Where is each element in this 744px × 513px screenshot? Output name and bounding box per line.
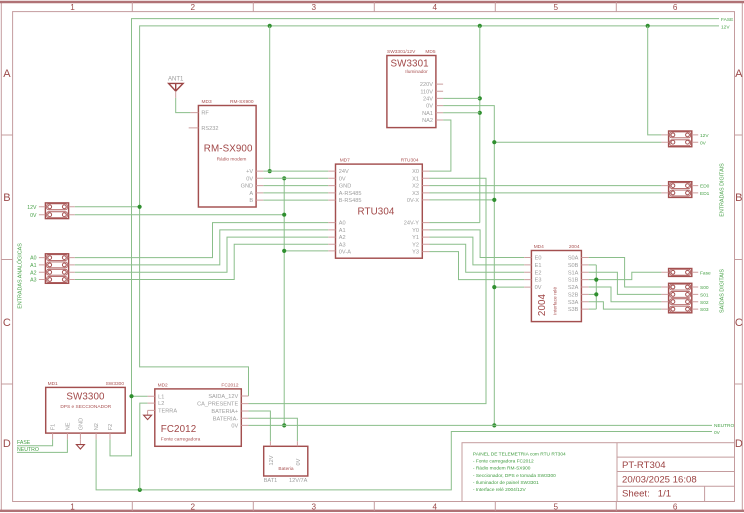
svg-text:0V: 0V — [30, 213, 37, 219]
svg-text:PAINEL DE TELEMETRIA com RTU R: PAINEL DE TELEMETRIA com RTU RT304 — [473, 451, 566, 457]
connector X5 right Fase terminal — [669, 269, 692, 277]
svg-text:0V: 0V — [231, 424, 238, 430]
node 0V bus to bottom 0V line junction — [492, 423, 496, 427]
net 12V rail (top/left, from FC2012 SAIDA_12V) — [140, 26, 719, 396]
pin stubs left 12V/0V connector — [39, 207, 75, 215]
svg-text:RTU304: RTU304 — [358, 207, 395, 218]
svg-text:S0B: S0B — [568, 263, 579, 269]
pin stubs 2004 right — [581, 258, 588, 310]
svg-text:A2: A2 — [339, 235, 346, 241]
svg-text:SAIDA_12V: SAIDA_12V — [208, 394, 238, 400]
svg-text:0V: 0V — [296, 458, 302, 465]
svg-text:MD1: MD1 — [48, 381, 58, 387]
svg-text:S0A: S0A — [568, 256, 579, 262]
svg-text:Y3: Y3 — [412, 250, 419, 256]
svg-text:CA_PRESENTE: CA_PRESENTE — [197, 402, 238, 408]
svg-text:2004: 2004 — [569, 244, 580, 250]
svg-text:D: D — [735, 438, 743, 450]
svg-text:Bateria: Bateria — [278, 466, 294, 472]
net S1A to S01 — [589, 272, 662, 294]
svg-text:BAT1: BAT1 — [264, 478, 278, 484]
svg-text:X0: X0 — [412, 169, 419, 175]
svg-text:E3: E3 — [535, 278, 542, 284]
svg-text:SW3301/12V: SW3301/12V — [387, 49, 416, 55]
node 0V right connector junction — [492, 140, 496, 144]
svg-text:- Seccionador, DPS e tomada SW: - Seccionador, DPS e tomada SW3300 — [473, 473, 556, 479]
svg-text:A0: A0 — [339, 221, 346, 227]
wire SW3300 F1 to FASE label — [17, 439, 53, 445]
svg-text:A3: A3 — [339, 242, 346, 248]
pin stubs 2004 left — [524, 258, 531, 288]
pin stubs left A0-A3 connector — [39, 258, 75, 280]
svg-text:RTU304: RTU304 — [401, 158, 419, 164]
svg-text:24V: 24V — [423, 97, 433, 103]
pin stubs right S connector — [661, 287, 698, 309]
net 2004 B-common vertical — [595, 265, 597, 309]
svg-text:X3: X3 — [412, 191, 419, 197]
net A1 — [75, 230, 328, 265]
ground symbol at FC2012 TERRA — [144, 410, 152, 419]
connector X3 right 12V/0V terminal — [669, 131, 692, 147]
svg-text:4: 4 — [433, 503, 438, 512]
wire L2 drop to NEUTRO — [140, 403, 148, 490]
node left 0V junction — [282, 213, 286, 217]
net 0V vertical rail x=284 (RM 0V, left 0V conn, RTU 0V-A, bottom 0V line) — [283, 178, 285, 425]
illuminator U-MD5 SW3301 — [387, 49, 436, 128]
net RM-SX900 to RTU304 +V/24V line — [263, 170, 328, 172]
node S1B junction — [594, 278, 598, 282]
wire left 12V connector to 12V rail — [75, 206, 140, 208]
net bottom 0V line from FC2012 0V to NEUTRO label — [249, 424, 713, 426]
svg-text:S01: S01 — [700, 293, 709, 299]
net RM-SX900 A to RTU A-RS485 — [263, 192, 328, 194]
svg-text:12V: 12V — [269, 455, 275, 465]
svg-text:B: B — [735, 192, 742, 204]
svg-text:MD7: MD7 — [340, 158, 350, 164]
svg-text:ANT1: ANT1 — [168, 77, 184, 83]
svg-text:- Rádio modem RM-SX900: - Rádio modem RM-SX900 — [473, 466, 531, 472]
relay interface U-MD4 2004 — [531, 244, 581, 321]
pin stubs RTU304 left — [328, 171, 335, 251]
node SW3301 NA1 junction — [478, 111, 482, 115]
pin stubs right Fase connector — [661, 271, 698, 273]
svg-text:0V: 0V — [426, 104, 433, 110]
svg-text:- Interface relé 2004/12V: - Interface relé 2004/12V — [473, 487, 527, 493]
net RTU Y0 to 2004 E0 — [430, 230, 525, 258]
svg-text:A1: A1 — [339, 228, 346, 234]
wire SW3301 24V to 12V drop — [443, 97, 480, 99]
svg-text:C: C — [735, 317, 743, 329]
svg-text:3: 3 — [312, 503, 317, 512]
connector X1 left 12V/0V terminal — [45, 203, 68, 219]
radio modem U-MD3 RM-SX900 — [198, 99, 256, 207]
svg-text:- Iluminador de painel SW3301: - Iluminador de painel SW3301 — [473, 480, 539, 486]
svg-text:Y0: Y0 — [412, 228, 419, 234]
pin stubs RM-SX900 — [189, 113, 264, 201]
svg-text:NA2: NA2 — [422, 118, 433, 124]
pin stubs right 12V/0V connector — [661, 135, 698, 142]
wire 12V drop to RM-SX900 +V — [269, 26, 271, 171]
frame column ticks bottom — [132, 502, 616, 511]
frame column labels top — [70, 3, 678, 12]
svg-text:GND: GND — [339, 184, 351, 190]
svg-text:S1A: S1A — [568, 270, 579, 276]
svg-text:A: A — [249, 191, 253, 197]
svg-text:ED0: ED0 — [700, 184, 710, 190]
svg-text:B: B — [3, 192, 10, 204]
svg-text:ENTRADAS ANALÓGICAS: ENTRADAS ANALÓGICAS — [17, 243, 24, 309]
node 2004 0V junction — [492, 285, 496, 289]
svg-text:RF: RF — [201, 111, 209, 117]
node RM 0V junction — [282, 176, 286, 180]
svg-text:2: 2 — [191, 3, 196, 12]
node 12V rail junctions top — [268, 24, 650, 28]
svg-text:+V: +V — [246, 169, 253, 175]
svg-text:0V: 0V — [246, 176, 253, 182]
svg-text:0V: 0V — [339, 176, 346, 182]
battery BAT1 — [264, 446, 308, 484]
wire SW3300 NE to NEUTRO label — [17, 439, 67, 452]
wire RTU 0V-A to 0V rail — [284, 250, 328, 252]
svg-text:GND: GND — [79, 418, 85, 430]
svg-text:MD3: MD3 — [202, 99, 212, 105]
svg-text:Y1: Y1 — [412, 235, 419, 241]
svg-text:A3: A3 — [30, 278, 36, 284]
svg-text:NE: NE — [66, 422, 72, 430]
frame row ticks left — [1, 135, 12, 384]
wire RTU 0V-X to 0V bus — [430, 199, 495, 201]
net NEUTRO: SW3300 N2 to 0V label right — [96, 432, 712, 490]
svg-text:Iluminador: Iluminador — [405, 69, 428, 75]
svg-text:A-RS485: A-RS485 — [339, 191, 362, 197]
svg-text:20/03/2025 16:08: 20/03/2025 16:08 — [622, 474, 697, 485]
svg-text:24V-Y: 24V-Y — [404, 221, 420, 227]
svg-text:5: 5 — [554, 503, 559, 512]
svg-text:Fonte carregadora: Fonte carregadora — [161, 437, 201, 443]
svg-text:MD2: MD2 — [158, 383, 168, 389]
svg-text:5: 5 — [554, 3, 559, 12]
svg-text:PT-RT304: PT-RT304 — [622, 460, 666, 471]
node 0V-X junction — [492, 198, 496, 202]
svg-text:B-RS485: B-RS485 — [339, 198, 362, 204]
svg-text:3: 3 — [312, 3, 317, 12]
svg-text:X1: X1 — [412, 176, 419, 182]
svg-text:S3B: S3B — [568, 307, 579, 313]
net RM-SX900 to RTU304 0V line — [263, 177, 328, 179]
antenna ANT1 — [168, 77, 184, 98]
svg-text:SAÍDAS DIGITAIS: SAÍDAS DIGITAIS — [719, 269, 726, 313]
node SW3301 24V junction — [478, 96, 482, 100]
svg-text:FC2012: FC2012 — [221, 383, 238, 389]
svg-text:E0: E0 — [535, 256, 542, 262]
wire 2004 0V pin to 0V bus — [494, 286, 524, 288]
svg-text:FASE: FASE — [17, 440, 31, 446]
svg-text:L2: L2 — [158, 401, 164, 407]
svg-text:L1: L1 — [158, 395, 164, 401]
svg-text:E2: E2 — [535, 270, 542, 276]
svg-text:ENTRADAS DIGITAIS: ENTRADAS DIGITAIS — [720, 163, 726, 217]
svg-text:BATERIA+: BATERIA+ — [211, 409, 238, 415]
svg-text:2: 2 — [191, 503, 196, 512]
pin stubs FC2012 — [148, 396, 249, 425]
svg-text:0V: 0V — [714, 430, 721, 436]
svg-text:C: C — [3, 317, 11, 329]
wire SW3301 NA1 to 12V drop — [443, 112, 480, 114]
node left 12V junction — [138, 205, 142, 209]
net SW3301 NA2 to RTU X0 — [430, 120, 451, 171]
node 0V rail bottom junction — [282, 423, 286, 427]
svg-text:A0: A0 — [30, 256, 36, 262]
svg-text:6: 6 — [673, 503, 678, 512]
frame row ticks right — [735, 135, 743, 384]
net RTU Y3 to 2004 E3 — [430, 252, 525, 280]
svg-text:MD4: MD4 — [534, 244, 544, 250]
svg-text:6: 6 — [673, 3, 678, 12]
svg-text:NEUTRO: NEUTRO — [17, 447, 39, 453]
svg-text:S1B: S1B — [568, 278, 579, 284]
svg-text:S2B: S2B — [568, 293, 579, 299]
frame row labels right — [735, 68, 743, 450]
net 0V bus: SW3301 0V down to bottom 0V line — [443, 106, 494, 426]
svg-text:RM-SX900: RM-SX900 — [230, 99, 254, 105]
svg-text:D: D — [3, 438, 11, 450]
svg-text:- Fonte carregadora FC2012: - Fonte carregadora FC2012 — [473, 459, 534, 465]
svg-text:Y2: Y2 — [412, 242, 419, 248]
net S2A to S02 — [589, 287, 662, 302]
svg-text:24V: 24V — [339, 169, 349, 175]
connector X2 left A0-A3 terminal — [45, 254, 68, 283]
wire 0V branch to right 0V connector — [494, 141, 661, 143]
connector X6 right S00-S03 terminal — [669, 283, 692, 313]
net S3A to S03 — [589, 302, 662, 309]
net FASE rail (top/left, to SW3300 F2 and FC2012 L1) — [110, 19, 719, 456]
node FASE-L1 junction — [129, 394, 133, 398]
frame row labels left — [3, 68, 11, 450]
net RTU X2 to ED0 — [430, 185, 662, 187]
svg-text:12V: 12V — [721, 24, 730, 30]
svg-text:110V: 110V — [420, 89, 433, 95]
svg-text:12V: 12V — [27, 205, 37, 211]
svg-text:TERRA: TERRA — [158, 409, 177, 415]
title block — [462, 443, 735, 502]
svg-text:12V: 12V — [700, 133, 709, 139]
svg-text:E1: E1 — [535, 263, 542, 269]
svg-text:A: A — [735, 68, 743, 80]
svg-text:1: 1 — [70, 503, 75, 512]
svg-text:A1: A1 — [30, 263, 36, 269]
svg-text:SW3300: SW3300 — [106, 381, 125, 387]
svg-text:12V/7A: 12V/7A — [289, 478, 308, 484]
svg-text:NA1: NA1 — [422, 111, 433, 117]
net RM-SX900 to RTU304 GND line — [263, 185, 328, 187]
charger U-MD2 FC2012 — [155, 383, 242, 447]
net BATERIA+ to battery 12V — [249, 411, 271, 441]
svg-text:Sheet: 1/1: Sheet: 1/1 — [622, 489, 671, 500]
wire S0B to B-common — [589, 264, 597, 266]
wire RTU 24V-Y to 12V drop — [430, 222, 480, 224]
svg-text:N2: N2 — [94, 423, 100, 430]
net A2 — [75, 237, 328, 272]
svg-text:A: A — [3, 68, 11, 80]
ground symbol below SW3300 GND — [76, 439, 84, 449]
net RTU Y2 to 2004 E2 — [430, 244, 525, 272]
svg-text:1: 1 — [70, 3, 75, 12]
net RTU Y1 to 2004 E1 — [430, 237, 525, 265]
svg-text:B: B — [249, 198, 253, 204]
net S0A to S00 — [589, 258, 662, 288]
svg-text:Fase: Fase — [700, 270, 711, 276]
svg-text:S3A: S3A — [568, 300, 579, 306]
svg-text:Interface relé: Interface relé — [553, 287, 559, 315]
svg-text:F1: F1 — [51, 424, 57, 431]
wire antenna to RF — [176, 98, 191, 113]
svg-text:FC2012: FC2012 — [161, 424, 196, 435]
net A0 from connector to RTU — [75, 223, 328, 258]
title block description text — [473, 451, 566, 492]
svg-text:0V: 0V — [700, 140, 707, 146]
wire 12V drop to SW3301 24V / NA1 / RTU 24V-Y — [479, 26, 481, 223]
svg-text:X2: X2 — [412, 184, 419, 190]
RTU U-MD7 RTU304 — [336, 158, 423, 259]
node 0V-A junction — [282, 249, 286, 253]
svg-text:MD5: MD5 — [425, 49, 435, 55]
svg-text:S03: S03 — [700, 307, 709, 313]
svg-text:4: 4 — [433, 3, 438, 12]
svg-text:0V-X: 0V-X — [407, 198, 419, 204]
svg-text:FASE: FASE — [721, 17, 733, 23]
net BATERIA- to battery 0V — [249, 418, 298, 441]
node NEUTRO-L2 junction — [138, 488, 142, 492]
wire S2B to B-common — [589, 293, 597, 295]
wire 12V drop to right 12V connector — [648, 26, 662, 135]
net RTU X3 to ED1 — [430, 192, 662, 194]
svg-text:Rádio modem: Rádio modem — [217, 157, 247, 163]
pin stubs SW3301 — [436, 84, 443, 120]
frame column labels bottom — [70, 503, 678, 512]
svg-text:F2: F2 — [108, 424, 114, 431]
svg-text:DPS e SECCIONADOR: DPS e SECCIONADOR — [60, 404, 111, 410]
svg-text:A2: A2 — [30, 270, 36, 276]
svg-text:0V: 0V — [535, 285, 542, 291]
net RM-SX900 B to RTU B-RS485 — [263, 199, 328, 201]
svg-text:2004: 2004 — [537, 293, 548, 316]
frame column ticks top — [132, 2, 616, 12]
svg-text:RM-SX900: RM-SX900 — [204, 143, 253, 154]
wire left 0V connector line — [75, 214, 284, 216]
wire S1B to Fase connector — [589, 272, 662, 279]
svg-text:S2A: S2A — [568, 285, 579, 291]
pin stubs SW3300 bottom — [53, 433, 110, 439]
svg-text:SW3301: SW3301 — [391, 58, 429, 69]
svg-text:S02: S02 — [700, 300, 709, 306]
svg-text:SW3300: SW3300 — [66, 392, 105, 403]
net CA_PRESENTE to RTU X1 — [249, 178, 487, 403]
wire S3B to B-common — [589, 308, 597, 310]
pin stubs RTU304 right — [422, 171, 429, 252]
svg-text:NEUTRO: NEUTRO — [714, 423, 735, 429]
pin stubs battery — [270, 441, 297, 446]
svg-text:220V: 220V — [420, 82, 433, 88]
DPS/disconnector U-MD1 SW3300 — [46, 381, 126, 433]
net A3 — [75, 244, 328, 279]
svg-text:0V-A: 0V-A — [339, 250, 351, 256]
svg-text:ED1: ED1 — [700, 191, 710, 197]
node +V junction — [268, 169, 272, 173]
svg-text:RS232: RS232 — [201, 126, 218, 132]
svg-text:BATERIA-: BATERIA- — [213, 416, 239, 422]
pin stubs right ED connector — [661, 186, 698, 193]
svg-text:S00: S00 — [700, 285, 709, 291]
connector X4 right ED0/ED1 terminal — [669, 182, 692, 198]
node S2B junction — [594, 292, 598, 296]
svg-text:GND: GND — [241, 184, 253, 190]
